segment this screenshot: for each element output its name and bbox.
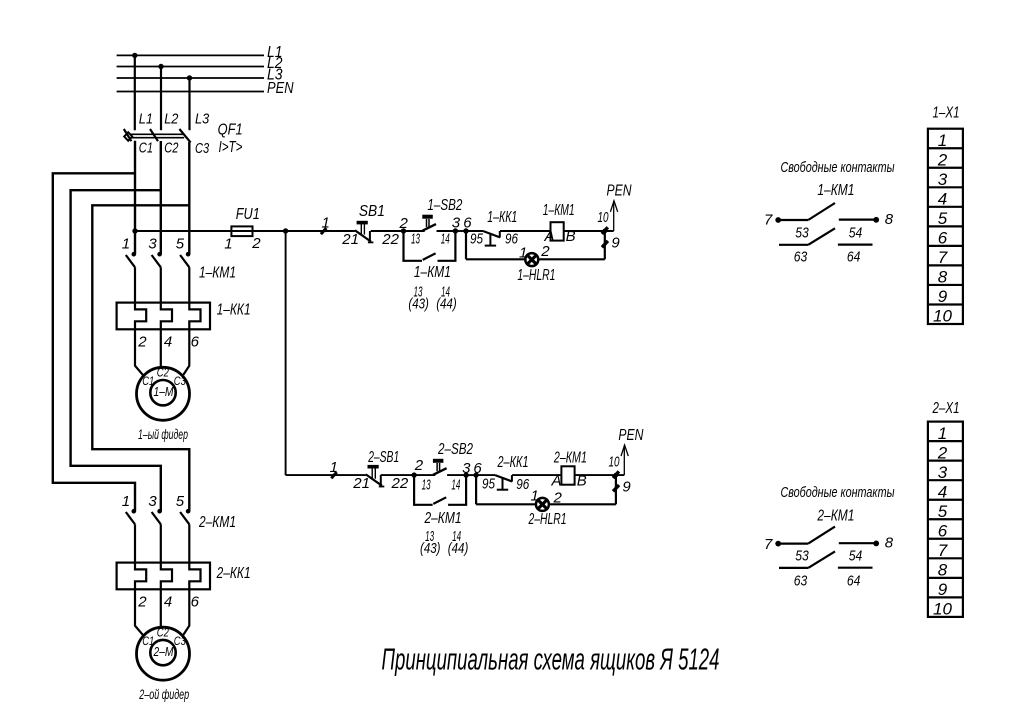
wire 1-KK1 to coil — [500, 230, 551, 232]
svg-text:1: 1 — [224, 235, 232, 252]
node 3 junction (feeder2) — [463, 472, 468, 477]
svg-text:Свободные контакты: Свободные контакты — [781, 484, 895, 501]
svg-text:10: 10 — [598, 209, 609, 226]
wire coil to node 10 — [564, 230, 614, 232]
svg-text:L2: L2 — [164, 111, 179, 128]
svg-text:2: 2 — [251, 235, 261, 252]
svg-text:2–КК1: 2–КК1 — [497, 454, 529, 471]
terminal block 1-X1 body — [928, 129, 963, 324]
svg-text:8: 8 — [938, 561, 948, 580]
wire 1-KK1 to motor pole2 — [160, 329, 162, 367]
svg-text:PEN: PEN — [618, 427, 644, 444]
svg-text:6: 6 — [938, 229, 948, 248]
wire bus L1 — [117, 54, 264, 56]
auxiliary contact 1-KM1 13-14 (self hold) — [404, 231, 423, 261]
svg-text:63: 63 — [794, 248, 808, 265]
wire tap to FU1 — [132, 228, 137, 233]
wire feed to 2-SB1 — [286, 474, 366, 476]
svg-text:PEN: PEN — [607, 182, 633, 199]
wire 2-SB1 to node 2 — [381, 474, 415, 476]
svg-text:8: 8 — [938, 268, 948, 287]
free contact 1-KM1 63-64 — [779, 244, 808, 246]
PEN terminal arrow (feeder2) — [623, 445, 625, 475]
pushbutton 1&#8211;SB2 (NO start button) — [423, 224, 437, 231]
svg-text:2: 2 — [137, 593, 147, 610]
svg-text:10: 10 — [933, 600, 952, 619]
lamp 1-HLR1 — [525, 253, 538, 266]
wire node6 to 2-KK1 contact — [476, 474, 495, 476]
svg-text:1–КМ1: 1–КМ1 — [817, 182, 854, 199]
coil 1-KM1 — [551, 222, 564, 240]
svg-text:6: 6 — [938, 521, 948, 540]
breaker QF1 diamond — [124, 132, 132, 141]
breaker QF1 linkage bar — [126, 133, 184, 135]
svg-text:PEN: PEN — [267, 80, 294, 97]
fuse FU1 — [231, 226, 252, 236]
svg-text:1–КК1: 1–КК1 — [217, 302, 251, 319]
svg-text:1–SB2: 1–SB2 — [427, 197, 462, 214]
thermal contact 2-KK1 95-96 — [495, 475, 512, 481]
wire node6 to 1-KK1 contact — [466, 230, 483, 232]
svg-text:9: 9 — [622, 478, 631, 495]
wire bus L3 — [117, 77, 264, 79]
wire number 9 marker (feeder2) — [613, 485, 619, 491]
svg-text:1: 1 — [938, 424, 947, 443]
svg-text:3: 3 — [938, 463, 948, 482]
motor 2-M inner circle — [150, 640, 175, 665]
wire 1-KK1 to motor pole3 — [183, 329, 189, 375]
wire node2 to 1-SB2 — [404, 230, 425, 232]
svg-text:3: 3 — [148, 236, 157, 253]
svg-text:4: 4 — [164, 593, 172, 610]
svg-text:7: 7 — [938, 541, 948, 560]
svg-text:9: 9 — [611, 234, 620, 251]
thermal relay 1-KK1 heater pole 3 — [189, 303, 200, 330]
contactor 1-KM1 main contact pole 2 — [157, 252, 162, 257]
svg-text:C3: C3 — [174, 374, 186, 388]
svg-text:C1: C1 — [142, 374, 154, 388]
svg-text:95: 95 — [470, 230, 484, 247]
wire lamp to node 9 (feeder2) — [549, 503, 616, 505]
wire bypass phase A to feeder2 — [53, 173, 135, 511]
svg-text:4: 4 — [164, 333, 172, 350]
svg-text:1–X1: 1–X1 — [933, 105, 960, 122]
svg-text:7: 7 — [764, 536, 773, 553]
svg-text:2–КМ1: 2–КМ1 — [817, 508, 855, 525]
svg-text:1: 1 — [122, 493, 130, 510]
svg-text:6: 6 — [191, 333, 200, 350]
svg-text:14: 14 — [451, 477, 460, 494]
wire node2 to 2-SB2 — [414, 474, 435, 476]
svg-text:2: 2 — [937, 150, 948, 169]
svg-text:I>T>: I>T> — [219, 139, 243, 156]
terminal block 2-X1 body — [928, 422, 963, 617]
wire loop to lamp — [466, 258, 526, 260]
wire coil to node 10 (feeder2) — [575, 474, 625, 476]
svg-text:(44): (44) — [448, 540, 469, 557]
wire loop to lamp (feeder2) — [476, 503, 536, 505]
svg-text:10: 10 — [609, 454, 620, 471]
thermal relay 1-KK1 heater pole 2 — [161, 303, 172, 330]
wire QF1 C2 to contact 3 — [160, 141, 162, 254]
svg-text:14: 14 — [441, 230, 450, 247]
svg-text:21: 21 — [352, 475, 370, 492]
breaker QF1 blade pole1 — [124, 129, 132, 141]
svg-text:1: 1 — [531, 487, 539, 504]
free contact 2-KM1 53-54 — [775, 541, 781, 547]
svg-text:21: 21 — [341, 231, 359, 248]
svg-text:2–КМ1: 2–КМ1 — [198, 514, 236, 531]
thermal relay 2-KK1 heater pole 2 — [161, 563, 172, 590]
svg-text:53: 53 — [795, 548, 809, 565]
thermal relay 2-KK1 box — [117, 563, 210, 590]
wire number 1 marker (feeder2) — [331, 472, 336, 478]
svg-text:2: 2 — [540, 243, 550, 260]
wire 1-KK1 to motor pole1 — [135, 329, 143, 375]
wire bus L2 — [117, 66, 264, 68]
thermal relay 2-KK1 heater pole 3 — [189, 563, 200, 590]
svg-text:8: 8 — [885, 535, 894, 552]
svg-text:2: 2 — [937, 443, 948, 462]
wire 1-SB2 to node 3 — [437, 230, 456, 232]
wire node3 to node6 (feeder2) — [466, 474, 476, 476]
svg-text:3: 3 — [452, 214, 461, 231]
svg-text:FU1: FU1 — [236, 206, 260, 223]
svg-text:64: 64 — [847, 573, 861, 590]
svg-text:3: 3 — [938, 170, 948, 189]
svg-text:54: 54 — [849, 224, 863, 241]
svg-text:54: 54 — [849, 548, 863, 565]
node 2 junction (feeder2) — [411, 472, 416, 477]
svg-text:10: 10 — [933, 307, 952, 326]
wire bus PEN — [117, 91, 264, 93]
wire tap L2 to QF1 — [160, 67, 162, 131]
wire 9 branch — [604, 231, 606, 259]
motor 1-M outer circle — [137, 367, 190, 420]
svg-text:64: 64 — [847, 248, 861, 265]
wire number 9 marker — [602, 241, 608, 247]
svg-text:L3: L3 — [195, 111, 210, 128]
node 10 junction — [602, 229, 607, 234]
svg-text:2–КК1: 2–КК1 — [216, 565, 251, 582]
wire 2-KK1 to coil — [512, 474, 561, 476]
svg-text:4: 4 — [938, 482, 947, 501]
wire 2-KK1 to motor pole2 — [160, 589, 162, 627]
wire node to SB1 — [286, 230, 355, 232]
svg-text:7: 7 — [764, 211, 773, 228]
svg-text:1–КМ1: 1–КМ1 — [414, 264, 451, 281]
wire 9 branch (feeder2) — [615, 475, 617, 504]
pushbutton 2&#8211;SB2 (NO start button) — [433, 468, 447, 475]
motor 2-M outer circle — [137, 627, 190, 680]
contactor 2-KM1 main contact pole 1 — [132, 509, 137, 514]
svg-text:2–ой фидер: 2–ой фидер — [139, 687, 190, 702]
node 2 junction — [401, 228, 406, 233]
contactor 1-KM1 main contact pole 3 — [186, 252, 191, 257]
svg-text:6: 6 — [191, 593, 200, 610]
breaker QF1 blade pole2 — [150, 129, 158, 141]
svg-text:1–КК1: 1–КК1 — [487, 209, 517, 226]
svg-text:5: 5 — [938, 209, 948, 228]
svg-text:(43): (43) — [408, 296, 429, 313]
wire tap L3 to QF1 — [188, 78, 190, 130]
svg-text:C1: C1 — [142, 634, 154, 648]
wire lamp to node 9 — [538, 258, 604, 260]
svg-text:C2: C2 — [157, 366, 169, 380]
wire bypass phase C to feeder2 — [92, 205, 189, 511]
svg-text:1: 1 — [322, 215, 330, 232]
svg-text:1: 1 — [938, 131, 947, 150]
svg-text:1: 1 — [519, 244, 527, 261]
wire FU1 to node — [253, 230, 286, 232]
svg-text:1–КМ1: 1–КМ1 — [543, 202, 575, 219]
motor 1-M inner circle — [150, 380, 175, 405]
svg-text:4: 4 — [938, 189, 947, 208]
svg-text:1–М: 1–М — [154, 385, 174, 399]
svg-text:2: 2 — [137, 333, 147, 350]
lamp 2-HLR1 — [536, 498, 549, 511]
svg-text:(44): (44) — [436, 296, 457, 313]
node 3 junction — [453, 228, 458, 233]
thermal relay 1-KK1 box — [117, 303, 210, 330]
svg-text:1–HLR1: 1–HLR1 — [517, 267, 555, 284]
svg-text:C2: C2 — [164, 140, 179, 157]
svg-text:(43): (43) — [420, 540, 441, 557]
svg-text:5: 5 — [176, 236, 185, 253]
wire tap L1 to QF1 — [134, 55, 136, 130]
svg-text:95: 95 — [482, 476, 496, 493]
auxiliary contact 2-KM1 13-14 (self hold) — [414, 475, 433, 505]
svg-text:1: 1 — [330, 459, 338, 476]
svg-text:2–SB2: 2–SB2 — [437, 441, 473, 458]
svg-text:C3: C3 — [174, 634, 186, 648]
svg-text:96: 96 — [505, 230, 519, 247]
svg-text:C3: C3 — [195, 140, 210, 157]
node 6 junction (feeder2) — [473, 472, 478, 477]
svg-text:1–КМ1: 1–КМ1 — [199, 265, 236, 282]
pushbutton 2&#8211;SB1 (NC stop button) — [366, 474, 382, 485]
svg-text:2–КМ1: 2–КМ1 — [424, 510, 462, 527]
svg-text:5: 5 — [176, 493, 185, 510]
contactor 2-KM1 main contact pole 2 — [157, 509, 162, 514]
wire bypass phase B to feeder2 — [71, 190, 161, 511]
svg-text:L1: L1 — [139, 111, 153, 128]
svg-text:2–М: 2–М — [153, 645, 174, 659]
svg-text:QF1: QF1 — [218, 121, 243, 138]
breaker QF1 blade pole3 — [179, 129, 190, 142]
svg-text:9: 9 — [938, 580, 948, 599]
thermal contact 1-KK1 95-96 — [483, 231, 500, 237]
wire QF1 C3 to contact 5 — [188, 142, 190, 254]
svg-text:2–X1: 2–X1 — [932, 400, 960, 417]
wire SB1 to node 2 — [371, 230, 404, 232]
node 6 junction — [463, 228, 468, 233]
svg-text:63: 63 — [794, 573, 808, 590]
svg-text:A: A — [551, 472, 562, 489]
svg-text:22: 22 — [391, 475, 409, 492]
svg-text:2–SB1: 2–SB1 — [368, 449, 400, 466]
wire number 1 marker (1) — [321, 228, 326, 234]
thermal relay 1-KK1 heater pole 1 — [135, 303, 146, 330]
svg-text:6: 6 — [463, 214, 472, 231]
free contact 2-KM1 63-64 — [779, 567, 808, 569]
svg-text:2: 2 — [414, 457, 424, 474]
wire QF1 C1 to contact 1 — [134, 141, 136, 254]
svg-text:9: 9 — [938, 287, 948, 306]
contactor 1-KM1 main contact pole 1 — [132, 252, 137, 257]
wire node6 down to lamp loop — [465, 231, 467, 259]
svg-text:1–ый фидер: 1–ый фидер — [138, 427, 188, 442]
pushbutton SB1 (NC stop button) — [355, 230, 371, 241]
svg-text:8: 8 — [885, 211, 894, 228]
wire node6 down to lamp loop (feeder2) — [475, 475, 477, 504]
wire 2-SB2 to node 3 — [447, 474, 466, 476]
svg-text:2–КМ1: 2–КМ1 — [553, 450, 587, 467]
svg-text:2: 2 — [399, 215, 409, 232]
wire 2-KK1 to motor pole3 — [183, 589, 189, 635]
coil 2-KM1 — [561, 466, 574, 484]
svg-text:C1: C1 — [139, 140, 153, 157]
contactor 2-KM1 main contact pole 3 — [186, 509, 191, 514]
junction control feed — [283, 228, 288, 233]
free contact 1-KM1 53-54 — [775, 217, 781, 223]
thermal relay 2-KK1 heater pole 1 — [135, 563, 146, 590]
wire control feed to feeder2 — [285, 231, 287, 475]
svg-text:1: 1 — [122, 236, 130, 253]
svg-text:96: 96 — [516, 476, 530, 493]
PEN terminal arrow (feeder1) — [613, 201, 615, 231]
svg-text:22: 22 — [381, 231, 399, 248]
wire node3 to node6 — [455, 230, 466, 232]
svg-text:SB1: SB1 — [359, 203, 385, 220]
svg-text:13: 13 — [411, 230, 420, 247]
svg-text:Принципиальная схема ящиков Я: Принципиальная схема ящиков Я 5124 — [382, 642, 720, 677]
svg-text:Свободные контакты: Свободные контакты — [781, 159, 895, 176]
svg-text:C2: C2 — [157, 625, 169, 639]
svg-text:5: 5 — [938, 502, 948, 521]
svg-text:7: 7 — [938, 248, 948, 267]
svg-text:53: 53 — [795, 224, 809, 241]
svg-text:3: 3 — [148, 493, 157, 510]
node 10 junction (feeder2) — [614, 473, 619, 478]
svg-text:13: 13 — [422, 477, 431, 494]
svg-text:2–HLR1: 2–HLR1 — [528, 511, 567, 528]
wire 2-KK1 to motor pole1 — [135, 589, 143, 635]
